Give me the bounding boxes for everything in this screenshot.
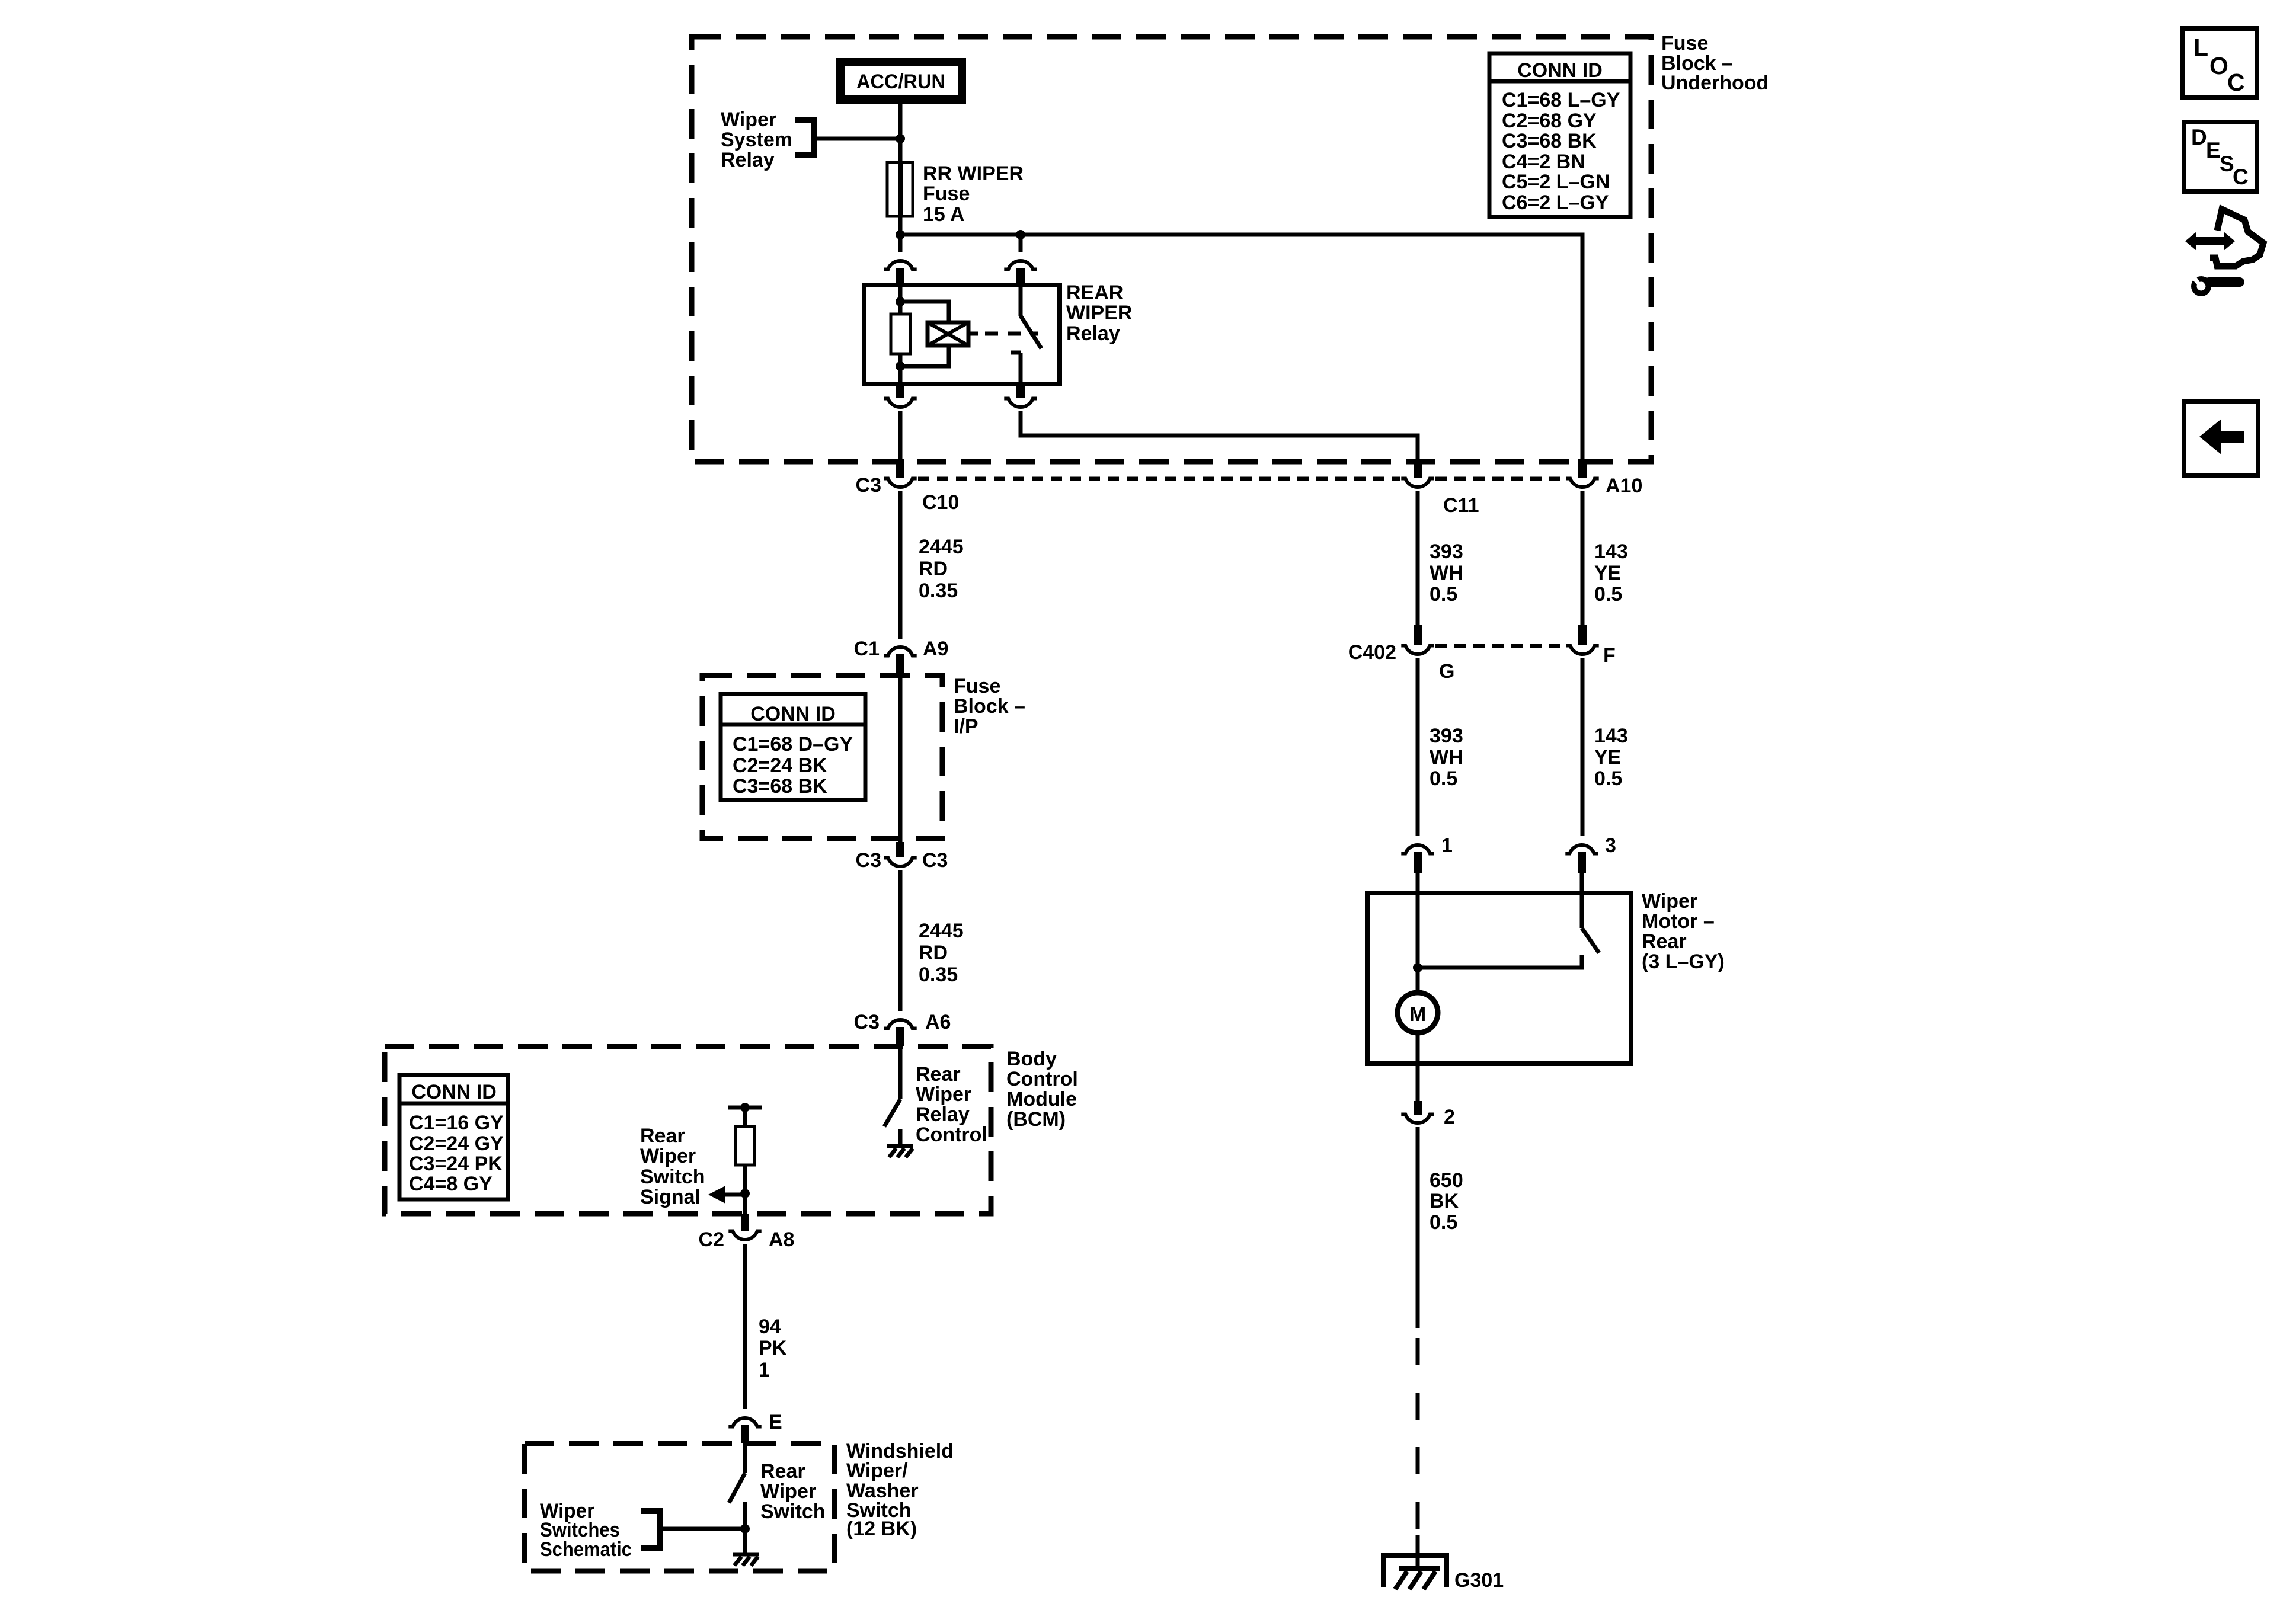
vehicle outline icon — [2210, 209, 2263, 266]
svg-text:C6=2 L–GY: C6=2 L–GY — [1502, 191, 1609, 214]
svg-text:O: O — [2209, 52, 2228, 79]
Windshield Wiper/Washer Switch dashed box — [525, 1443, 834, 1571]
svg-text:Fuse: Fuse — [954, 675, 1000, 697]
svg-text:393: 393 — [1430, 725, 1463, 747]
svg-text:Relay: Relay — [1066, 322, 1120, 345]
svg-text:Schematic: Schematic — [540, 1538, 632, 1561]
pin stub C3/A6 — [896, 1027, 904, 1046]
svg-text:0.5: 0.5 — [1594, 583, 1622, 606]
bus wire to A10 drop — [900, 235, 1582, 475]
svg-text:E: E — [769, 1411, 782, 1433]
pin stub C402 G — [1414, 625, 1422, 645]
wire C10 to C1 — [898, 491, 903, 639]
svg-text:ACC/RUN: ACC/RUN — [856, 71, 945, 93]
svg-text:Wiper: Wiper — [721, 108, 776, 131]
wire C3 to C3/A6 — [898, 870, 903, 1011]
svg-text:RD: RD — [919, 558, 948, 580]
wire bus to relay switch arc — [1019, 235, 1023, 252]
svg-text:Rear: Rear — [916, 1063, 961, 1086]
svg-text:A8: A8 — [769, 1228, 794, 1251]
svg-text:C: C — [2233, 165, 2249, 189]
svg-text:0.5: 0.5 — [1430, 767, 1457, 790]
svg-text:C5=2 L–GN: C5=2 L–GN — [1502, 171, 1610, 193]
svg-text:C402: C402 — [1348, 641, 1396, 664]
connector arc into relay switch side — [1004, 261, 1037, 270]
wire G to pin 1 — [1416, 658, 1420, 836]
svg-text:G301: G301 — [1454, 1569, 1504, 1592]
connector C3/C10 arc — [884, 479, 916, 488]
CONN ID table I/P — [721, 694, 865, 800]
junction dot relay upper — [896, 297, 905, 306]
svg-text:Rear: Rear — [1642, 930, 1687, 953]
svg-text:Switch: Switch — [760, 1500, 826, 1523]
svg-text:94: 94 — [759, 1315, 781, 1338]
svg-text:PK: PK — [759, 1337, 787, 1359]
svg-text:0.5: 0.5 — [1430, 1211, 1457, 1234]
svg-text:C4=8 GY: C4=8 GY — [409, 1173, 493, 1195]
relay coil branch wire lower — [898, 354, 903, 384]
connector C3/A6 arc — [884, 1020, 916, 1029]
svg-text:Rear: Rear — [760, 1460, 805, 1483]
svg-text:S: S — [2220, 152, 2234, 176]
svg-text:WIPER: WIPER — [1066, 302, 1132, 324]
svg-text:650: 650 — [1430, 1169, 1463, 1192]
svg-text:(BCM): (BCM) — [1006, 1108, 1066, 1131]
svg-text:Fuse: Fuse — [1661, 32, 1708, 55]
svg-text:0.5: 0.5 — [1594, 767, 1622, 790]
wire T-bar to resistor — [743, 1108, 747, 1126]
svg-text:C3=68 BK: C3=68 BK — [733, 775, 827, 798]
wire bracket to switch — [660, 1527, 745, 1531]
svg-text:2: 2 — [1444, 1106, 1455, 1128]
BCM switch signal T-bar — [728, 1106, 762, 1110]
wire junction to motor — [1416, 968, 1420, 994]
wire through I/P block — [898, 676, 903, 842]
connector arc into relay coil side — [884, 261, 916, 270]
pin stub C1/A9 — [896, 654, 904, 676]
svg-text:C3: C3 — [854, 1011, 880, 1033]
BCM resistor — [736, 1126, 754, 1165]
wire junction to coil top — [900, 302, 949, 322]
connector boundary dotted line C10-C11-A10 — [918, 477, 1400, 481]
pin stub C3 lower — [896, 842, 904, 857]
svg-text:A9: A9 — [923, 638, 948, 660]
DESC icon box — [2184, 122, 2257, 191]
pin stub C11 top — [1414, 459, 1422, 478]
junction dot switch — [740, 1524, 750, 1534]
pin stub C2/A8 — [741, 1214, 749, 1231]
Fuse Block - Underhood dashed box — [692, 37, 1651, 462]
svg-text:RR WIPER: RR WIPER — [923, 162, 1024, 185]
wire pin 3 into motor box — [1580, 873, 1584, 928]
connector C11 arc — [1401, 479, 1434, 488]
svg-text:C2=24 GY: C2=24 GY — [409, 1132, 504, 1155]
relay coil branch wire upper — [898, 285, 903, 314]
wire junction to coil bottom — [900, 345, 949, 366]
wire dashed part to G301 — [1416, 1338, 1420, 1532]
pin stub 1 — [1414, 852, 1422, 873]
svg-text:Wiper: Wiper — [1642, 890, 1697, 913]
svg-text:Wiper/: Wiper/ — [846, 1459, 908, 1482]
connector arc below relay coil side — [884, 399, 916, 408]
svg-text:Fuse: Fuse — [923, 183, 970, 205]
svg-text:C2: C2 — [699, 1228, 724, 1251]
svg-text:RD: RD — [919, 942, 948, 964]
svg-text:143: 143 — [1594, 540, 1628, 563]
svg-text:1: 1 — [759, 1359, 770, 1381]
svg-text:F: F — [1603, 644, 1616, 667]
REAR WIPER Relay box — [864, 285, 1060, 384]
svg-text:Signal: Signal — [640, 1186, 701, 1208]
wire ACC/RUN to junction — [898, 104, 903, 162]
signal arrow — [708, 1186, 745, 1204]
svg-text:(3 L–GY): (3 L–GY) — [1642, 950, 1725, 973]
pin stub A10 top — [1578, 459, 1587, 478]
svg-text:2445: 2445 — [919, 536, 964, 558]
svg-text:Rear: Rear — [640, 1125, 685, 1147]
connector pin 3 arc — [1565, 845, 1598, 854]
svg-text:REAR: REAR — [1066, 281, 1123, 304]
svg-text:1: 1 — [1441, 834, 1453, 857]
svg-text:C3: C3 — [856, 474, 881, 497]
svg-text:C3: C3 — [856, 849, 881, 872]
ACC/RUN power feed box — [836, 58, 966, 104]
pin stub 3 — [1578, 852, 1586, 873]
svg-text:L: L — [2193, 34, 2208, 61]
svg-text:BK: BK — [1430, 1190, 1459, 1212]
svg-text:Wiper: Wiper — [640, 1145, 696, 1167]
svg-text:C: C — [2227, 69, 2245, 96]
relay resistor — [891, 314, 910, 354]
junction dot relay lower — [896, 361, 905, 371]
forward-back arrow icon — [2185, 232, 2235, 251]
svg-text:Module: Module — [1006, 1088, 1077, 1110]
svg-text:C3=68 BK: C3=68 BK — [1502, 130, 1597, 152]
svg-text:143: 143 — [1594, 725, 1628, 747]
svg-text:CONN ID: CONN ID — [750, 703, 836, 725]
connector C402 G arc — [1401, 646, 1434, 655]
svg-text:A10: A10 — [1606, 475, 1642, 497]
pin stub out of relay switch side — [1016, 384, 1025, 398]
svg-text:15 A: 15 A — [923, 203, 965, 226]
svg-text:Body: Body — [1006, 1048, 1057, 1070]
connector boundary dotted line C402 — [1435, 644, 1565, 648]
Fuse Block - I/P dashed box — [702, 676, 942, 838]
svg-text:Wiper: Wiper — [916, 1083, 971, 1106]
ground symbol BCM — [887, 1146, 913, 1157]
svg-text:C1=68 D–GY: C1=68 D–GY — [733, 733, 853, 756]
LOC icon box — [2183, 28, 2257, 98]
svg-text:Underhood: Underhood — [1661, 72, 1769, 94]
svg-text:C1=16 GY: C1=16 GY — [409, 1112, 504, 1134]
svg-text:YE: YE — [1594, 746, 1621, 769]
junction dot bus left — [896, 230, 905, 239]
fuse RR WIPER 15 A — [887, 162, 913, 216]
connector pin 2 arc — [1401, 1115, 1434, 1124]
svg-text:Motor –: Motor – — [1642, 910, 1715, 933]
wire bracket to ACC wire — [814, 137, 900, 141]
Wiper System Relay bracket — [795, 120, 814, 155]
svg-text:Wiper: Wiper — [760, 1480, 816, 1503]
svg-text:0.35: 0.35 — [919, 580, 958, 602]
svg-text:Control: Control — [1006, 1068, 1078, 1090]
svg-text:C10: C10 — [922, 491, 959, 514]
connector pin 1 arc — [1401, 845, 1434, 854]
wire relay switch side to C11 — [1021, 411, 1418, 463]
svg-text:C3=24 PK: C3=24 PK — [409, 1153, 503, 1175]
junction dot arrow — [740, 1189, 750, 1198]
ground symbol switch — [733, 1554, 759, 1566]
svg-text:Relay: Relay — [721, 149, 775, 171]
svg-text:WH: WH — [1430, 746, 1463, 769]
connector C1/A9 arc — [884, 647, 916, 656]
Body Control Module dashed box — [385, 1046, 991, 1214]
relay actuator dashed link — [985, 332, 1038, 336]
svg-text:C3: C3 — [922, 849, 948, 872]
pin stub F — [1578, 625, 1587, 645]
svg-text:0.35: 0.35 — [919, 964, 958, 986]
svg-text:C2=68 GY: C2=68 GY — [1502, 110, 1597, 132]
junction dot motor — [1413, 963, 1422, 972]
svg-text:3: 3 — [1605, 834, 1616, 857]
svg-text:Switch: Switch — [640, 1166, 705, 1188]
pin stub out of relay coil side — [896, 384, 904, 398]
svg-text:0.5: 0.5 — [1430, 583, 1457, 606]
svg-text:C2=24 BK: C2=24 BK — [733, 754, 827, 777]
svg-text:C1=68 L–GY: C1=68 L–GY — [1502, 89, 1620, 111]
rear wiper switch — [729, 1443, 745, 1554]
wire A8 to E — [743, 1244, 747, 1409]
wrench icon — [2189, 272, 2244, 296]
relay coil box with X — [928, 322, 978, 345]
pin stub 2 — [1414, 1101, 1422, 1115]
connector A10 arc — [1566, 479, 1598, 488]
motor switch contact and park wire — [1418, 955, 1582, 968]
wire pin 2 to ground solid part — [1416, 1127, 1420, 1328]
pin stub into relay switch side — [1016, 268, 1025, 285]
svg-text:Block –: Block – — [954, 695, 1025, 718]
svg-text:G: G — [1439, 660, 1454, 683]
connector F arc — [1566, 646, 1598, 655]
back arrow icon box — [2184, 401, 2258, 475]
Wiper Motor - Rear box — [1367, 893, 1631, 1064]
connector arc below relay switch side — [1004, 399, 1037, 408]
pin stub C3 top — [896, 459, 904, 478]
CONN ID table BCM — [399, 1075, 508, 1199]
svg-text:C11: C11 — [1443, 494, 1479, 517]
svg-text:(12 BK): (12 BK) — [846, 1518, 917, 1540]
motor switch blade — [1582, 928, 1599, 953]
svg-text:System: System — [721, 129, 792, 151]
svg-text:M: M — [1409, 1003, 1426, 1026]
pin stub E — [741, 1425, 749, 1443]
svg-text:Relay: Relay — [916, 1103, 970, 1126]
svg-text:CONN ID: CONN ID — [1517, 59, 1603, 82]
junction dot T-bar — [740, 1103, 750, 1112]
svg-text:WH: WH — [1430, 562, 1463, 584]
CONN ID table underhood — [1489, 53, 1630, 217]
Wiper Switches Schematic bracket — [641, 1511, 660, 1548]
svg-text:2445: 2445 — [919, 920, 964, 942]
svg-text:Control: Control — [916, 1124, 987, 1146]
connector C2/A8 arc — [728, 1231, 761, 1240]
svg-text:393: 393 — [1430, 540, 1463, 563]
junction dot ACC wire — [896, 134, 905, 143]
wire motor to pin 2 — [1416, 1032, 1420, 1101]
svg-text:CONN ID: CONN ID — [411, 1081, 497, 1103]
pin stub into relay coil side — [896, 268, 904, 285]
junction dot bus at relay switch — [1016, 230, 1025, 239]
svg-text:I/P: I/P — [954, 715, 978, 738]
svg-text:D: D — [2191, 125, 2207, 149]
wire C11 to C402 — [1416, 491, 1420, 625]
motor M circle — [1398, 993, 1438, 1033]
wire F to pin 3 — [1581, 658, 1585, 836]
relay switch — [1011, 285, 1041, 384]
wire resistor to junction — [743, 1165, 747, 1214]
svg-text:C4=2 BN: C4=2 BN — [1502, 151, 1585, 173]
wire relay coil side down to C3 — [898, 411, 903, 462]
wire pin 1 into motor box — [1416, 873, 1420, 968]
svg-text:YE: YE — [1594, 562, 1621, 584]
svg-text:E: E — [2206, 138, 2221, 162]
connector E arc — [728, 1418, 761, 1427]
svg-text:A6: A6 — [925, 1011, 951, 1033]
connector C3/C3 arc — [884, 858, 916, 867]
ground G301 symbol — [1383, 1555, 1447, 1589]
BCM relay control switch — [884, 1046, 900, 1144]
wire fuse to bus — [898, 216, 903, 252]
svg-text:C1: C1 — [854, 638, 880, 660]
wire A10 to F — [1581, 491, 1585, 625]
